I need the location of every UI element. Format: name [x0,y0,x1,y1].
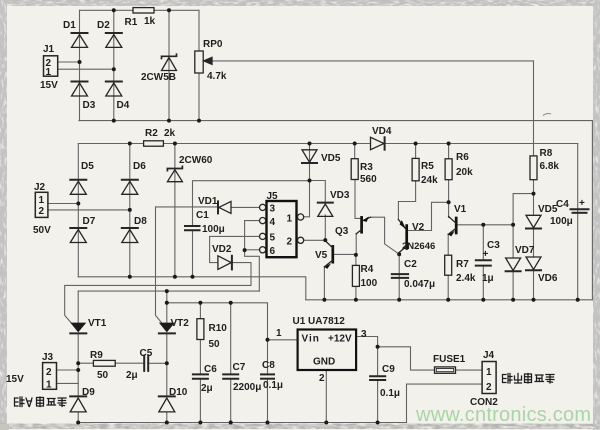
wire: C8 column [267,340,269,423]
node J1 pin1 / D2-D4 [112,67,116,71]
svg-text:VD4: VD4 [372,126,392,137]
node VT2 anode / lower wire [165,301,169,305]
node D8 bridge out [128,275,132,279]
resistor R10 [197,319,204,340]
svg-text:D2: D2 [97,20,110,31]
capacitor C4 polarized [571,209,589,213]
wire: RP0 column bottom [198,10,200,120]
svg-text:20k: 20k [456,167,473,178]
node J2 pin2 / D6-D8 [128,208,132,212]
svg-text:1: 1 [287,214,293,225]
svg-text:2N2646: 2N2646 [402,241,435,252]
svg-text:2: 2 [39,206,45,217]
wire: J4 pin2 return to ground rail [407,384,483,422]
svg-text:15V: 15V [40,80,58,91]
wire: U1 pin3 wire to C9 node [356,337,378,347]
node V2 B1 / C2 [397,252,401,256]
svg-text:R10: R10 [209,323,228,334]
resistor R7 [445,255,452,275]
svg-text:Q3: Q3 [335,226,349,237]
node VD6 rail [532,298,536,302]
node R5 rail2 [414,142,418,146]
zener 2CW60 [167,166,182,181]
node VT1 R9 [76,361,80,365]
diode D1 [72,33,88,47]
wire: C7 column [230,303,232,423]
resistor R3 [351,159,358,180]
svg-text:VD6: VD6 [538,273,558,284]
wire: R5 to V2 emitter [398,181,415,220]
svg-text:1: 1 [46,67,52,78]
wire: J5 pin6 link [245,249,259,251]
svg-text:+12V: +12V [328,334,352,345]
label input voltmeter (CJK approximated strokes) [15,374,555,407]
svg-text:2CW60: 2CW60 [179,155,213,166]
svg-text:D10: D10 [169,387,188,398]
svg-text:50: 50 [97,370,109,381]
scan fleck [543,114,551,116]
svg-text:J1: J1 [43,44,55,55]
node 2CW60 rail2 [173,142,177,146]
svg-text:www.cntronics.com: www.cntronics.com [415,404,591,426]
node R4 rail [354,298,358,302]
node C6 ground [198,421,202,425]
node J2 pin1 / D5-D7 [76,202,80,206]
svg-text:4.7k: 4.7k [207,71,227,82]
wire: lower distribution wire y=302.8 [167,303,268,340]
svg-text:J2: J2 [34,182,46,193]
diode VD2 [218,256,232,270]
diode D7 [70,228,86,243]
node C1 bottom [191,275,195,279]
zener 2CW5B [162,54,177,70]
svg-text:C8: C8 [262,360,275,371]
svg-text:2.4k: 2.4k [456,273,476,284]
svg-text:R8: R8 [540,148,553,159]
svg-text:1k: 1k [144,16,156,27]
connector J3 [43,363,57,390]
svg-text:D8: D8 [134,216,147,227]
node R3 rail2 [353,142,357,146]
wire: V1 base wire to C3/VD7 [458,224,514,226]
node C9 ground [376,421,380,425]
wire: VD3 bottom to node [324,215,326,240]
wire: VT1 anode riser [77,291,79,323]
diode VD1 [218,201,231,213]
wire: main positive rail y=143.5 [78,143,577,145]
svg-text:R2: R2 [145,128,158,139]
wire: VD1 to J5 pin3 [231,206,261,208]
svg-text:2μ: 2μ [201,383,213,394]
transistor Q3 [356,216,370,233]
scan border noise bottom [0,424,600,429]
wire: pin3 node to FUSE1 to J4 pin1 [378,347,483,370]
node D2 top [112,8,116,12]
svg-text:0.1μ: 0.1μ [263,380,283,391]
node VD7 rail [511,298,515,302]
diode D3 [72,82,88,97]
svg-text:D6: D6 [133,161,146,172]
node D10 ground [165,421,169,425]
svg-text:1: 1 [46,380,52,391]
node J5 pins4-6 [243,248,247,252]
wire: VD3 top link [310,181,326,203]
svg-text:C4: C4 [556,199,569,210]
thyristor VT1 [70,323,86,334]
wire: 2CW5B column [168,10,170,120]
wire: R8 node jog to VD7 [513,194,533,258]
diode VD3 [318,203,333,217]
node VT2 R9/C5 [165,361,169,365]
svg-text:6: 6 [270,246,276,257]
svg-text:2: 2 [319,373,325,384]
resistor R8 [530,156,537,180]
svg-text:D1: D1 [63,20,76,31]
svg-text:VT2: VT2 [171,318,190,329]
svg-text:V1: V1 [454,204,467,215]
wire: J5 pin4 link [245,221,262,251]
diode D6 [122,180,138,195]
svg-text:R5: R5 [421,161,434,172]
svg-text:50V: 50V [33,225,51,236]
svg-text:C1: C1 [196,210,209,221]
svg-text:U1 UA7812: U1 UA7812 [293,316,346,327]
svg-text:3: 3 [361,329,367,340]
node 2CW60 bottom [173,275,177,279]
node R6/V1 collector [447,200,451,204]
thyristor VT2 [159,323,175,334]
node RP0 rail [197,119,201,123]
wire: R10/C6 column [199,303,201,423]
wire: top rail of D1-D4 bridge [80,9,200,11]
svg-text:R7: R7 [456,259,469,270]
wire: bridge2 output wire y=276.8 to lower rail [78,277,305,300]
regulator U1 UA7812 box [298,330,357,371]
node C7 wire [229,301,233,305]
diode D9 [70,396,86,412]
wire: VD1 left to VT2 gate line [156,206,218,208]
connector J4 [482,362,496,394]
node R8 bottom [532,192,536,196]
wire: rail y=299.8 (regulator output common) [306,299,593,301]
svg-text:VD7: VD7 [515,245,535,256]
diode D4 [106,82,122,97]
wire: D9 bottom [77,413,79,423]
svg-text:R3: R3 [360,162,373,173]
node R4 top [354,253,358,257]
svg-text:1μ: 1μ [482,273,494,284]
node VT1 J3 pin2 [76,368,80,372]
wire: VT2 anode riser and column [166,291,168,323]
svg-text:D4: D4 [117,100,130,111]
wire: RP0 wiper to R8 column [207,61,534,156]
node P line VT2 [165,289,169,293]
svg-text:VD2: VD2 [212,244,232,255]
node D6 rail2 [128,142,132,146]
node D4 rail [112,119,116,123]
resistor R1 [133,8,154,13]
wire: node to U1 Vin [268,339,298,341]
wire: 2CW60 column [174,144,176,277]
wire: R6 bottom node to V2 B2 [408,180,448,231]
wire: D10 bottom [166,413,168,423]
wire: C1 top wire from VD5 node [193,181,310,226]
wire: J3 pin2 wire [57,369,79,371]
node R7 rail [446,298,450,302]
wire: VD5 mid column [309,144,311,181]
svg-text:2200μ: 2200μ [233,382,261,393]
J5 pin circles [260,204,304,253]
wire: R3 column [354,144,356,159]
svg-text:R1: R1 [125,17,138,28]
diode VD6 [526,257,541,270]
wire: VT2 gate line vertical [156,207,163,323]
wire: J5 pin1 riser [302,181,309,217]
svg-text:D7: D7 [83,216,96,227]
svg-text:1: 1 [39,195,45,206]
wire: J1 pin1 wire [58,68,114,70]
wire: VD6 bottom [533,271,535,300]
wire: VD5r to VD6 [533,229,535,257]
diode D5 [70,180,86,195]
svg-text:V2: V2 [412,222,425,233]
wire: Q3 emitter to V2 B1 [371,217,400,254]
node C8 ground [266,421,270,425]
node C3 top [481,223,485,227]
svg-text:VD3: VD3 [330,190,350,201]
capacitor C8 [261,374,274,378]
node J1 pin2 / D1-D3 [78,60,82,64]
svg-text:R6: R6 [456,152,469,163]
transistor V2 UJT [398,220,406,255]
resistor R6 [445,159,452,180]
svg-text:VD5: VD5 [538,204,558,215]
svg-text:4: 4 [270,217,276,228]
diode D10 [159,396,175,412]
wire: bottom ground rail [78,422,406,424]
wire: D6/D8 column [129,144,131,277]
wire: Q3 collector drop [355,234,357,255]
svg-text:100: 100 [361,278,378,289]
wire: D2/D4 column [113,10,115,120]
svg-text:15V: 15V [6,374,24,385]
svg-text:+: + [483,249,489,260]
diode VD4 [371,137,385,149]
connector J2 [35,192,48,217]
resistor R5 [412,158,419,180]
svg-text:C3: C3 [487,240,500,251]
node U1 pin3/C9 [376,345,380,349]
node R10 wire [198,301,202,305]
node VD7 top [511,223,515,227]
node R6 rail2 [447,142,451,146]
diode D2 [106,33,122,47]
svg-text:C2: C2 [404,259,417,270]
svg-text:C7: C7 [233,362,246,373]
svg-text:2: 2 [46,367,52,378]
wire: J5 pin5 to VD2 anode [210,236,262,262]
wire: R9/C5 wire [78,362,167,364]
svg-text:GND: GND [313,357,335,368]
svg-text:5: 5 [270,233,276,244]
svg-text:D9: D9 [82,387,95,398]
svg-text:2: 2 [486,382,492,393]
svg-text:Vin: Vin [302,334,320,345]
wire: P line VT1 anode / VT2 anode / pins 4-6 [78,290,259,292]
svg-text:J4: J4 [483,350,495,361]
wire: VD7 bottom [512,272,514,300]
wire: J3 pin1 wire [57,382,79,384]
svg-text:24k: 24k [421,175,438,186]
wire: V5 base to R4 node [334,253,356,255]
wire: V1 collector from R6 node [448,202,450,217]
svg-text:50: 50 [209,339,221,350]
wire: J5 pin2 to VD3 node [302,239,325,241]
node VD5 rail2 [308,142,312,146]
diode D8 [122,228,138,243]
svg-text:FUSE1: FUSE1 [433,354,466,365]
scan border noise top [0,0,600,6]
node V5 emitter rail [322,298,326,302]
svg-text:C9: C9 [382,364,395,375]
svg-text:1: 1 [486,367,492,378]
node VD5/C1/J5pin1 [308,179,312,183]
svg-text:VT1: VT1 [88,318,107,329]
svg-text:R4: R4 [361,264,374,275]
capacitor C6 [193,374,208,378]
node 2CW5B rail [167,119,171,123]
svg-text:C5: C5 [140,348,153,359]
connector J5 [267,201,297,257]
wire: C3 column [482,225,484,300]
svg-text:C6: C6 [204,364,217,375]
transistor V1 [448,217,456,237]
wire: R8 bottom node [533,180,535,216]
wire: long rail y=120.6 from D3 col to right edge, down to lower rail [79,121,592,300]
wire: R3 to Q3 base [355,180,360,219]
wire: VT1 column to D9 [77,334,79,397]
resistor R9 [93,360,115,366]
node C3 rail [481,298,485,302]
node D9 ground [76,421,80,425]
svg-text:VD1: VD1 [198,196,218,207]
svg-text:100μ: 100μ [550,216,573,227]
wire: V5 emitter drop [323,267,325,300]
svg-text:VD5: VD5 [321,153,341,164]
svg-text:R9: R9 [90,350,103,361]
resistor R4 [352,265,359,286]
wire: D5/D7 column [77,144,79,277]
wire: J2 pin1 wire [48,203,78,205]
svg-text:2k: 2k [164,128,176,139]
svg-text:D3: D3 [83,100,96,111]
svg-text:6.8k: 6.8k [540,161,560,172]
svg-text:RP0: RP0 [203,39,223,50]
node C4 rail [576,298,580,302]
svg-text:+: + [579,198,585,209]
wire: D1/D3 column [79,10,81,120]
svg-text:560: 560 [360,174,377,185]
node C8/U1 Vin [266,338,270,342]
diode VD5 right [526,215,541,228]
wire: R5 column [415,144,417,159]
wire: pin4/6 drop to P line [245,250,260,291]
svg-text:2μ: 2μ [126,370,138,381]
diode VD5 mid [302,150,317,163]
wire: VD2 cathode to VT1 gate (Q line) [65,263,251,324]
wire: U1 pin2 (GND) drop [325,370,327,423]
resistor R2 [144,141,164,146]
wire: C9 column [377,347,379,423]
svg-text:D5: D5 [81,161,94,172]
diode VD7 [506,258,521,271]
transistor V5 [324,241,332,269]
svg-text:1: 1 [276,328,282,339]
wire: C4 column from rail to lower rail [577,144,579,300]
scan border noise left [0,0,7,430]
capacitor C7 [223,374,238,378]
connector J1 [44,56,58,76]
potentiometer RP0 [195,51,212,73]
svg-text:0.1μ: 0.1μ [380,388,400,399]
svg-text:V5: V5 [315,250,328,261]
wire: VT2 column through R9 node to D10 [166,334,168,397]
capacitor C9 [370,376,385,380]
wire: R4 column [355,255,357,300]
wire: J1 pin2 wire [58,61,80,63]
node R1-zener [167,8,171,12]
svg-text:J3: J3 [42,352,54,363]
label output voltmeter (CJK approximated strokes) [503,374,555,384]
svg-text:J5: J5 [267,191,279,202]
svg-text:3: 3 [270,204,276,215]
wire: R7 bottom [447,275,449,300]
capacitor C3 polarized [476,260,491,265]
wire: R6 column [448,144,450,159]
wire: V2 B1 to C2 [398,254,400,300]
fuse FUSE1 [435,367,456,373]
scan border noise right [593,0,600,430]
capacitor C2 [392,274,408,278]
wire: C1 bottom to bridge2 wire [192,230,194,276]
svg-text:2CW5B: 2CW5B [141,72,176,83]
node VD3/J5pin2/V5 [323,238,327,242]
node C2 rail [397,298,401,302]
node U1 GND ground [324,421,328,425]
capacitor C1 [185,226,200,230]
svg-text:2: 2 [287,237,293,248]
wire: V1 emitter to R7 [447,234,449,255]
capacitor C5 [144,356,148,371]
svg-text:0.047μ: 0.047μ [404,279,435,290]
svg-text:100μ: 100μ [202,224,225,235]
node C7 ground [229,421,233,425]
wire: J2 pin2 wire [48,209,130,211]
